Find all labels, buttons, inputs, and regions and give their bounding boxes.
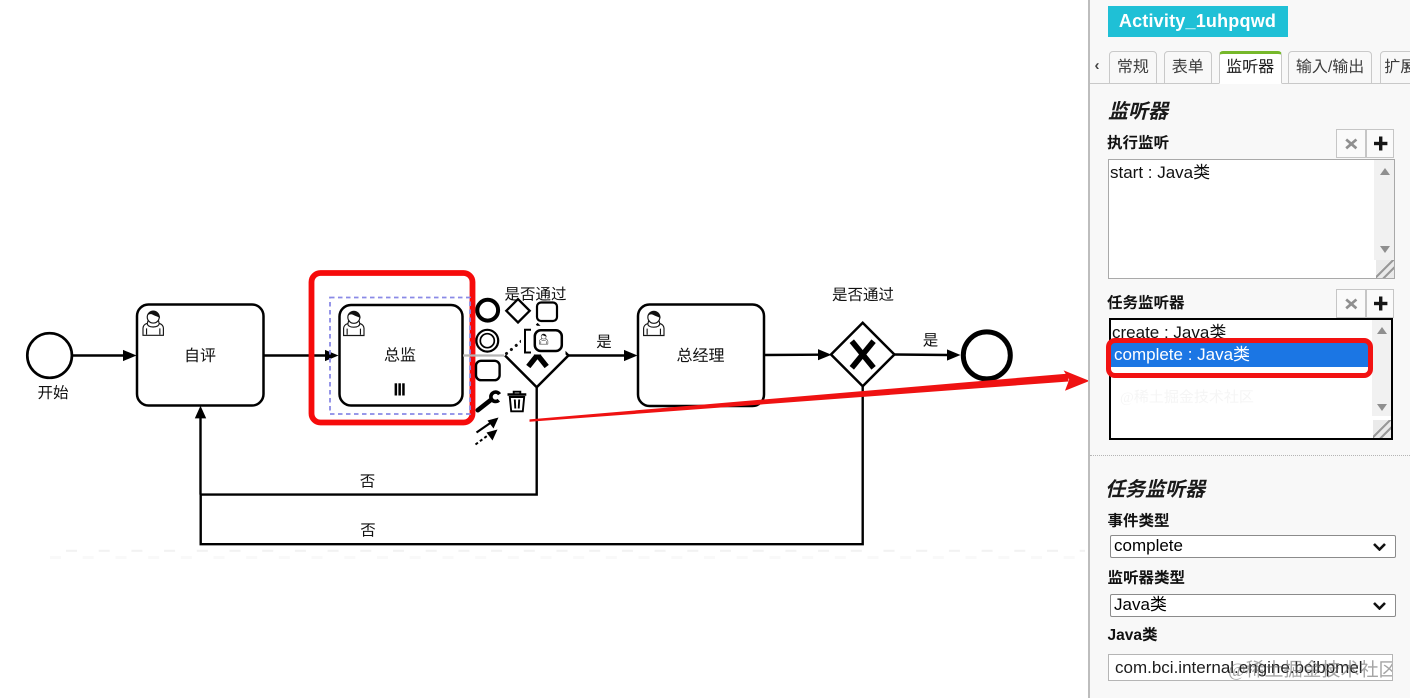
select 监听器类型 = Java类: [1110, 594, 1396, 617]
svg-text:开始: 开始: [37, 384, 69, 402]
add button: [1366, 289, 1395, 318]
add button: [1366, 129, 1395, 158]
svg-text:是否通过: 是否通过: [832, 287, 894, 304]
change-type user task box: [535, 330, 562, 351]
svg-text:自评: 自评: [184, 347, 216, 365]
input Java class: [1108, 654, 1393, 681]
dotted divider: [1090, 455, 1410, 456]
context pad: trash icon: [508, 392, 527, 412]
sequence flow 总经理 to gateway2: [764, 354, 819, 357]
svg-text:总经理: 总经理: [676, 347, 724, 365]
selection dashed rectangle: [330, 298, 470, 415]
user task 总监 (selected): [340, 305, 463, 406]
gateway1 X marker: [528, 344, 546, 367]
sequence flow gateway2 to end: [895, 353, 949, 356]
exclusive gateway 2: [831, 323, 894, 386]
red highlight around selected listener: [1106, 338, 1373, 379]
listbox 任务监听器: [1109, 318, 1393, 440]
dotted connector hint: [507, 339, 525, 354]
svg-text:否: 否: [360, 523, 376, 540]
start event 开始: [27, 333, 72, 378]
flow 否 from gateway1 back to 自评 (with up arrowhead): [201, 386, 863, 544]
remove button: [1336, 289, 1366, 318]
svg-text:是否通过: 是否通过: [504, 287, 566, 304]
svg-text:是: 是: [596, 334, 612, 351]
remove button: [1336, 129, 1366, 158]
select 事件类型 = complete: [1110, 535, 1396, 558]
context pad: append gateway icon: [506, 299, 529, 322]
gateway2 X marker: [852, 341, 874, 368]
sequence flow start to 自评: [73, 354, 125, 356]
svg-text:总监: 总监: [384, 347, 416, 365]
label 执行监听: [1107, 131, 1169, 153]
red annotation arrow to panel: [530, 374, 1069, 422]
svg-text:否: 否: [360, 474, 376, 491]
red highlight rectangle around 总监: [312, 273, 473, 423]
label 任务监听器: [1107, 291, 1185, 313]
end event: [963, 332, 1010, 379]
change-type bracket: [525, 330, 531, 353]
scrollbar: [1372, 320, 1391, 416]
element id badge: [1108, 6, 1288, 37]
svg-text:是: 是: [923, 333, 939, 350]
tab bar: [1090, 51, 1410, 84]
sequence flow 总监 to gateway1 (dimmed under context pad): [463, 354, 504, 356]
sequence flow gateway1 to 总经理: [569, 354, 626, 356]
faint page watermark dash rows: [66, 550, 1085, 552]
user task 自评: [137, 305, 264, 406]
context pad: connect arrows icon: [476, 418, 499, 445]
listbox 执行监听: [1108, 159, 1395, 279]
ghost watermark: [1120, 386, 1254, 407]
context pad: append intermediate event icon: [476, 330, 498, 352]
context pad: append task icon: [476, 361, 500, 380]
context pad: wrench (change element) icon: [478, 392, 500, 410]
exclusive gateway 1: [505, 324, 568, 387]
context pad: append end event icon: [477, 300, 498, 321]
context pad: append text-annotation icon: [537, 303, 557, 322]
selected option complete: [1111, 343, 1373, 367]
white cover over gateway top: [521, 326, 566, 355]
scrollbar: [1374, 160, 1394, 260]
group heading 任务监听器: [1105, 473, 1205, 502]
label 事件类型: [1108, 509, 1170, 531]
user task 总经理: [638, 305, 764, 407]
group heading 监听器: [1108, 95, 1168, 124]
label 监听器类型: [1108, 566, 1186, 588]
multi-instance marker: [395, 383, 405, 395]
label Java类: [1108, 623, 1158, 645]
sequence flow 自评 to 总监: [264, 354, 326, 356]
